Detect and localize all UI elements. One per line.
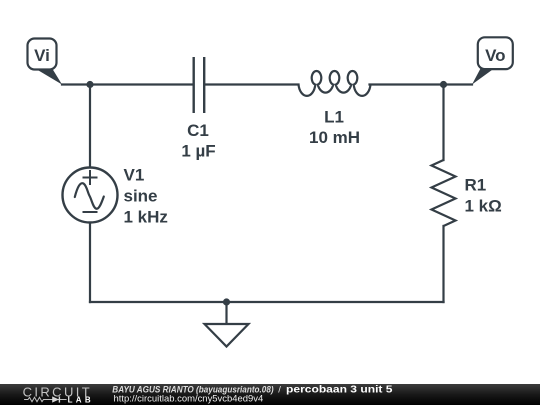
flag Vi xyxy=(28,39,63,85)
wire right vertical upper (node Vo to R1) xyxy=(442,85,444,161)
node at Vi / V1 junction xyxy=(86,81,93,88)
svg-text:10 mH: 10 mH xyxy=(309,128,360,147)
svg-text:Vi: Vi xyxy=(34,46,50,65)
svg-text:1 kHz: 1 kHz xyxy=(124,208,168,227)
wire right vertical lower (R1 to bottom rail) xyxy=(442,226,444,302)
svg-text:percobaan 3 unit 5: percobaan 3 unit 5 xyxy=(286,384,393,395)
wire L1 to Vo tail xyxy=(370,83,473,85)
svg-text:V1: V1 xyxy=(124,166,145,185)
svg-text:1 kΩ: 1 kΩ xyxy=(465,197,502,216)
node at Vo / R1 junction xyxy=(440,81,447,88)
source V1 xyxy=(63,168,118,223)
wire bottom rail xyxy=(90,301,444,303)
minus sign xyxy=(83,211,98,213)
svg-text:LAB: LAB xyxy=(68,396,94,405)
svg-text:L1: L1 xyxy=(324,108,344,127)
wire C1 right plate to L1 xyxy=(205,83,299,85)
svg-text:http://circuitlab.com/cny5vcb4: http://circuitlab.com/cny5vcb4ed9v4 xyxy=(114,394,264,405)
wire left vertical lower (V1 minus to bottom rail) xyxy=(89,223,91,303)
ground xyxy=(205,302,249,347)
node at ground junction xyxy=(223,298,230,305)
logo diode xyxy=(52,396,67,402)
resistor R1 xyxy=(432,160,456,226)
capacitor C1 xyxy=(194,57,205,113)
svg-text:R1: R1 xyxy=(465,176,487,195)
wire left vertical upper (node Vi to V1 plus) xyxy=(89,85,91,168)
svg-text:C1: C1 xyxy=(187,121,209,140)
svg-text:Vo: Vo xyxy=(485,46,505,65)
flag Vo xyxy=(472,37,513,84)
wire top-left from Vi tail to C1 left plate xyxy=(62,83,193,85)
sine waveform xyxy=(75,183,104,209)
inductor L1 xyxy=(299,71,371,96)
svg-text:1 µF: 1 µF xyxy=(181,142,215,161)
svg-text:/: / xyxy=(278,384,281,395)
logo resistor squiggle xyxy=(24,397,52,401)
plus sign xyxy=(83,170,98,212)
svg-text:sine: sine xyxy=(124,187,158,206)
